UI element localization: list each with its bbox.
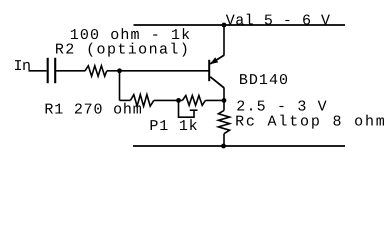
wire R1 to P1 — [154, 99, 183, 101]
junction dot collector node — [222, 98, 227, 103]
svg-text:Val 5 - 6 V: Val 5 - 6 V — [226, 12, 331, 29]
junction dot ground rail — [221, 144, 226, 149]
svg-text:R1 270 ohm: R1 270 ohm — [44, 102, 142, 119]
wire Rc to ground rail — [223, 134, 225, 146]
svg-text:Rc Altop 8 ohm: Rc Altop 8 ohm — [235, 114, 387, 131]
wire P1 to collector node — [205, 99, 224, 101]
junction dot P1 left — [176, 98, 181, 103]
P1 wiper tap — [179, 100, 195, 117]
svg-text:P1 1k: P1 1k — [149, 118, 198, 135]
wire node A down — [119, 71, 121, 101]
ground rail (bottom) — [133, 145, 345, 147]
P1 wiper contact bar — [190, 109, 198, 111]
capacitor C1 plate left — [47, 58, 49, 83]
resistor R1 — [130, 95, 153, 107]
wire down-leg to R1 — [120, 99, 131, 101]
wire collector node to Rc — [223, 100, 225, 110]
emitter arrowhead (PNP) — [210, 57, 218, 64]
transistor Q1 base bar — [208, 60, 210, 81]
wire R2 to base — [107, 70, 209, 72]
transistor Q1 emitter diagonal — [210, 55, 224, 64]
resistor Rc — [218, 110, 229, 133]
wire capacitor to R2 — [56, 70, 85, 72]
transistor Q1 collector lead — [223, 88, 225, 101]
junction dot node A (R2/base/R1) — [117, 68, 122, 73]
transistor Q1 collector diagonal — [210, 77, 224, 88]
svg-text:In: In — [14, 58, 31, 75]
svg-text:R2 (optional): R2 (optional) — [55, 42, 190, 59]
wire In to capacitor — [29, 70, 47, 72]
node Val supply rail (top) — [134, 24, 346, 26]
transistor Q1 emitter lead — [223, 25, 225, 56]
resistor R2 — [85, 66, 107, 76]
svg-text:BD140: BD140 — [239, 72, 289, 89]
capacitor C1 plate right — [54, 58, 56, 83]
potentiometer P1 — [182, 96, 205, 106]
junction dot node Val — [222, 23, 227, 28]
